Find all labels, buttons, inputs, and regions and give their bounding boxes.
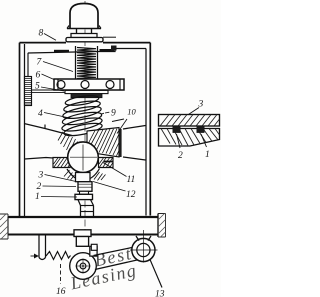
svg-text:5: 5 [35,82,40,92]
svg-text:16: 16 [56,287,66,297]
svg-text:11: 11 [127,175,136,185]
svg-text:3: 3 [38,171,44,181]
svg-text:2: 2 [178,151,183,161]
svg-text:10: 10 [127,107,136,117]
svg-text:2: 2 [37,182,42,192]
svg-text:12: 12 [126,190,136,200]
svg-text:6: 6 [36,71,41,81]
svg-text:4: 4 [38,109,43,119]
svg-text:1: 1 [35,192,40,202]
svg-text:1: 1 [205,150,210,160]
svg-text:13: 13 [155,290,165,297]
svg-text:3: 3 [198,100,204,110]
svg-text:8: 8 [39,29,44,39]
svg-text:9: 9 [111,109,116,119]
